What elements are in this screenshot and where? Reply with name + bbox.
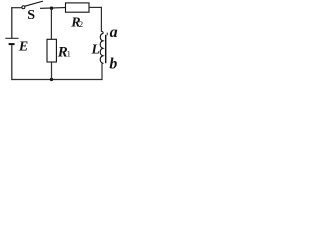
wire right upper — [100, 7, 102, 32]
svg-text:S: S — [27, 8, 35, 23]
wire top middle — [40, 7, 66, 10]
wire left upper — [11, 7, 13, 38]
wire middle branch lower — [51, 62, 53, 80]
resistor R2 — [66, 3, 90, 12]
switch S — [22, 6, 25, 9]
tick near a — [106, 33, 108, 36]
svg-text:E: E — [18, 40, 28, 55]
resistor R1 — [47, 39, 56, 62]
svg-text:1: 1 — [67, 49, 71, 59]
node junction dot bottom — [50, 78, 53, 81]
wire middle branch upper — [50, 8, 52, 39]
svg-text:a: a — [110, 24, 118, 41]
battery E — [5, 37, 18, 39]
wire bottom — [12, 79, 103, 81]
wire right lower — [101, 64, 103, 80]
wire top-right segment — [89, 6, 101, 8]
wire top-left segment — [11, 7, 22, 9]
inductor core bar — [105, 35, 107, 63]
wire left lower — [11, 45, 13, 80]
svg-text:2: 2 — [79, 19, 83, 29]
svg-text:L: L — [91, 42, 100, 57]
node junction dot top — [50, 7, 53, 10]
inductor L coil — [100, 31, 103, 63]
svg-text:b: b — [109, 56, 117, 73]
